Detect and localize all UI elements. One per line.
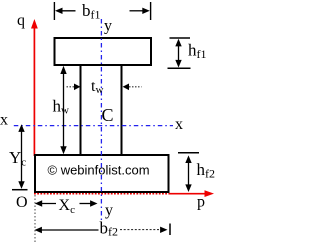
extension dotted line from flange bottom-left corner: [34, 195, 36, 242]
dimension b_f2 right extension bar: [169, 224, 171, 236]
q axis arrowhead: [31, 19, 38, 29]
svg-text:© webinfolist.com: © webinfolist.com: [48, 163, 150, 178]
dimension b_f1 right extension bar: [150, 2, 152, 20]
dimension t_w right-pointing arrow: [67, 86, 75, 88]
dimension h_f2 double arrow: [188, 159, 190, 188]
dimension b_f1 right arrow: [130, 10, 144, 12]
svg-text:x: x: [0, 111, 8, 128]
dimension b_f2 right dotted segment with arrow: [120, 229, 161, 231]
dimension b_f1 left extension bar: [53, 2, 55, 20]
dimension h_f1 double arrow: [178, 42, 180, 64]
svg-text:O: O: [16, 194, 28, 211]
dimension h_f1 top tick: [170, 37, 191, 39]
svg-text:p: p: [197, 194, 205, 211]
dimension X_c left arrow: [39, 203, 56, 205]
svg-text:hw: hw: [53, 97, 70, 117]
svg-text:Yc: Yc: [9, 148, 26, 169]
dimension Y_c bottom tick: [12, 189, 28, 191]
svg-text:C: C: [102, 105, 114, 125]
dimension b_f1 left arrow: [59, 10, 76, 12]
dimension t_w left-pointing arrow: [129, 86, 142, 88]
q axis red vertical line: [33, 26, 35, 156]
dimension h_f2 top tick: [178, 152, 199, 154]
dimension b_f2 left segment with arrow: [39, 229, 99, 231]
svg-text:y: y: [105, 202, 113, 219]
svg-text:x: x: [175, 116, 183, 133]
svg-text:bf2: bf2: [100, 219, 119, 239]
x-x centroidal axis blue dash-dot horizontal: [14, 125, 173, 127]
dimension h_w double arrow: [63, 70, 65, 150]
svg-text:hf2: hf2: [197, 160, 216, 181]
svg-text:q: q: [17, 12, 25, 29]
y centroidal axis blue dash-dot vertical: [100, 19, 102, 220]
top flange rectangle: [55, 38, 152, 65]
dimension X_c right arrow: [80, 203, 94, 205]
p axis red solid segment: [169, 193, 207, 195]
svg-text:hf1: hf1: [188, 41, 207, 62]
bottom flange rectangle: [35, 155, 169, 192]
dimension Y_c double arrow: [21, 127, 23, 186]
svg-text:bf1: bf1: [82, 1, 101, 22]
dimension h_f1 bottom tick: [168, 67, 191, 69]
p axis red dotted segment under flange: [34, 193, 169, 195]
web rectangle: [81, 65, 122, 155]
svg-text:y: y: [104, 18, 112, 35]
p axis arrowhead: [205, 190, 215, 197]
svg-text:Xc: Xc: [59, 197, 76, 216]
